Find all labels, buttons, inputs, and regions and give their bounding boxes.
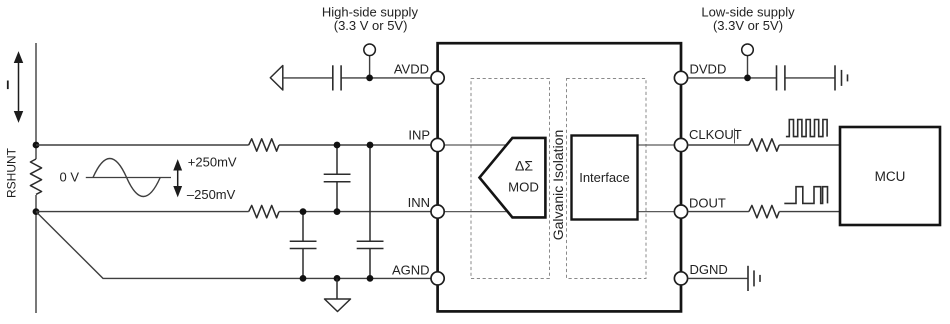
svg-text:INP: INP (408, 128, 430, 143)
junction: AGND-gnd (334, 275, 341, 282)
pin DVDD (674, 71, 687, 84)
capacitor C3 (INP to AGND) (357, 145, 384, 278)
capacitor C5 (DVDD decoupling) (777, 65, 785, 90)
delta-sigma modulator pentagon (480, 138, 546, 218)
wire: chassis to AVDD (283, 77, 438, 79)
junction: AVDD-terminal (366, 75, 373, 82)
IC U1 body (438, 43, 681, 311)
annotation: sine source 0V axis (86, 177, 171, 179)
resistor R3 (CLKOUT series) (749, 139, 779, 151)
wire: INP pin to modulator (438, 144, 510, 146)
ground: high-side chassis triangle (270, 66, 283, 91)
capacitor C4 (AVDD decoupling) (333, 65, 341, 90)
svg-text:MOD: MOD (508, 179, 539, 194)
svg-text:DVDD: DVDD (690, 62, 727, 77)
svg-text:RSHUNT: RSHUNT (5, 147, 19, 198)
MCU block (840, 127, 940, 225)
resistor RSHUNT (30, 159, 41, 194)
capacitor C2 (INN to AGND) (290, 212, 317, 279)
pin INP (431, 138, 444, 151)
junction: AGND-C3 (367, 275, 374, 282)
junction: bus-INP (33, 142, 40, 149)
terminal: high-side supply (369, 56, 371, 78)
pin CLKOUT (674, 138, 687, 151)
resistor R1 (INP series) (249, 139, 279, 151)
junction: INN-C1 (334, 208, 341, 215)
wire: interface to CLKOUT pin (638, 144, 682, 146)
svg-text:Interface: Interface (579, 170, 630, 185)
resistor R4 (DOUT series) (749, 205, 779, 217)
junction: INP-C1 (334, 142, 341, 149)
pin INN (431, 205, 444, 218)
current arrow I (15, 53, 23, 122)
annotation: clock waveform (786, 120, 827, 137)
terminal: low-side supply (747, 56, 749, 78)
ground: analog ground triangle (336, 278, 338, 299)
pin AGND (431, 272, 444, 285)
junction: DVDD-terminal (744, 75, 751, 82)
ground: DGND bars (748, 266, 760, 291)
annotation: +/-250mV double arrow (174, 161, 181, 197)
svg-text:AVDD: AVDD (394, 62, 429, 77)
capacitor C1 (differential INP-INN) (324, 145, 351, 212)
svg-text:(3.3V or 5V): (3.3V or 5V) (713, 18, 783, 33)
wire: interface to DOUT pin (638, 211, 682, 213)
artifact: caret line in CLKOUT label (734, 129, 736, 144)
svg-text:CLKOUT: CLKOUT (689, 127, 742, 142)
high-side die dashed box (471, 79, 550, 279)
pin AVDD (431, 71, 444, 84)
low-side die dashed box (567, 79, 647, 279)
wire AGND return (diagonal + horizontal) (36, 212, 438, 279)
wire: shunt bus vertical (35, 43, 37, 313)
wire INP (36, 144, 438, 146)
svg-text:+250mV: +250mV (188, 155, 237, 170)
pin DOUT (674, 205, 687, 218)
svg-text:DOUT: DOUT (689, 195, 726, 210)
svg-text:MCU: MCU (875, 169, 906, 184)
junction: AGND-C2 (300, 275, 307, 282)
wire: INN pin to modulator (438, 211, 510, 213)
junction: INP-C3 (367, 142, 374, 149)
resistor R2 (INN series) (249, 205, 279, 217)
annotation: data waveform (784, 187, 827, 204)
svg-text:Galvanic Isolation: Galvanic Isolation (550, 130, 566, 241)
junction: INN-C2 (300, 208, 307, 215)
svg-text:–250mV: –250mV (187, 187, 236, 202)
wire: CLKOUT to MCU (688, 144, 840, 146)
wire INN (36, 211, 438, 213)
svg-text:INN: INN (408, 195, 430, 210)
svg-text:ΔΣ: ΔΣ (515, 157, 533, 173)
label I (7, 81, 9, 90)
svg-text:(3.3 V or 5V): (3.3 V or 5V) (334, 18, 408, 33)
junction: bus-INN (33, 208, 40, 215)
svg-text:AGND: AGND (392, 262, 430, 277)
wire: DOUT to MCU (688, 211, 840, 213)
annotation: sine wave (93, 159, 160, 197)
wire: DGND to ground (688, 277, 748, 279)
interface block (572, 136, 638, 220)
wire: DVDD to decoupling (688, 77, 835, 79)
pin DGND (674, 272, 687, 285)
ground: low-side supply bars (835, 65, 848, 90)
svg-text:DGND: DGND (690, 262, 728, 277)
svg-text:0 V: 0 V (60, 170, 80, 185)
